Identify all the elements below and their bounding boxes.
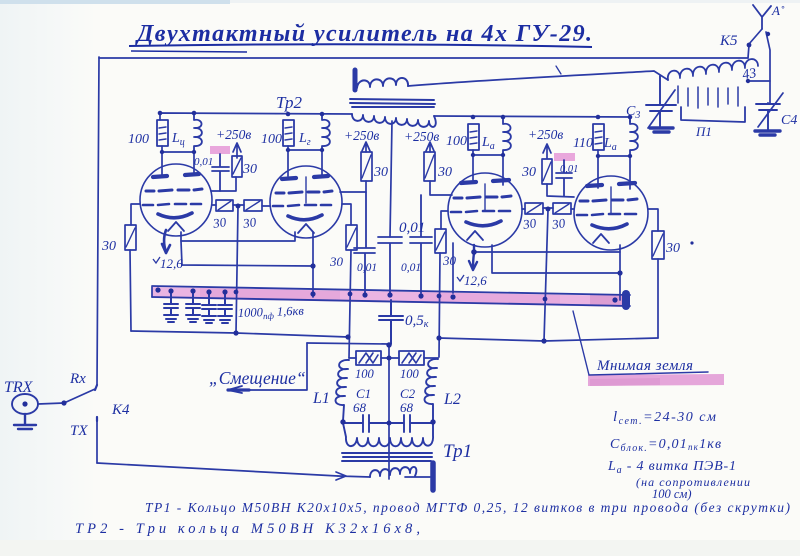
tube V2 (GU-29) envelope (270, 166, 342, 238)
svg-text:12,6: 12,6 (464, 273, 487, 288)
resistor R 100 (tube2 anode) (283, 120, 294, 146)
tube V2 control grid dashes (273, 205, 331, 206)
arrowhead bias (228, 388, 249, 391)
resistor R 110 (tube4 anode) (593, 124, 604, 150)
wire tube1 screen chain (211, 177, 236, 191)
switch K4 Rx contact (95, 385, 97, 390)
node anode rail left dots (158, 111, 163, 116)
wire XX row leads (349, 357, 438, 359)
transformer Tp2 primary winding (357, 78, 408, 88)
wire Tp1 secondary left lead with arrow (336, 472, 370, 480)
svg-text:ТX: ТX (70, 423, 88, 439)
inductor P1 tank coil (668, 59, 758, 80)
transformer Tp1 secondary winding (370, 467, 416, 477)
svg-text:30: 30 (211, 214, 227, 231)
svg-text:Мнимая земля: Мнимая земля (596, 358, 693, 374)
node bias line dots (233, 330, 238, 335)
wire V1 grid to leak resistor and down (130, 204, 140, 331)
svg-text:+250в: +250в (528, 127, 563, 142)
resistor 30 (V4 grid leak) (652, 231, 664, 259)
tube V3 screen grid dashes (454, 196, 511, 198)
tube V2 anode plates (282, 176, 328, 179)
tube V4 screen grid dashes (580, 199, 637, 201)
resistor 30 (tube1 screen stopper) (232, 156, 242, 177)
svg-text:43: 43 (741, 66, 757, 83)
resistor 30 (tube2 screen stopper, left of Tp2) (361, 152, 372, 181)
switch K4 lever (64, 389, 95, 403)
capacitor C1 68 (343, 415, 389, 432)
wire anode rail right (Tp2 secondary to tubes 3-4) (434, 116, 630, 122)
resistor 30 (grid stopper V3) (525, 203, 543, 214)
wire tube3 anode parallel bottom (473, 150, 503, 155)
wire V4 grid to leak resistor and down (648, 209, 658, 338)
svg-text:30: 30 (329, 254, 344, 269)
inductor La (tube1 anode) (194, 113, 202, 152)
node grid junction 1-2 (236, 204, 241, 209)
inductor La (tube4 anode) (630, 117, 638, 156)
svg-text:Двухтактный усилитель на: Двухтактный усилитель на 4х ГУ-29. (135, 21, 592, 47)
resistor 30 (grid stopper V2) (244, 200, 262, 211)
pen tick mark (556, 66, 561, 74)
wire TRX to switch K4 (38, 403, 64, 404)
svg-text:100 см): 100 см) (652, 487, 692, 501)
node TRX switch pivot (61, 400, 66, 405)
svg-text:L1: L1 (312, 390, 330, 407)
tube V2 beam plate line (305, 177, 307, 203)
node XX center (387, 356, 392, 361)
svg-text:0,01: 0,01 (357, 262, 377, 274)
svg-text:30: 30 (241, 214, 257, 231)
wire Tp2 center tap down (390, 121, 392, 237)
svg-text:30: 30 (442, 253, 457, 268)
tube V1 screen grid dashes (146, 189, 202, 191)
tube V3 (GU-29) envelope (448, 173, 522, 247)
svg-text:30: 30 (373, 165, 388, 180)
inductor L (tube2 anode) (322, 113, 330, 150)
wire tube3 screen chain (430, 181, 452, 195)
tube V1 anode plates (153, 174, 199, 177)
svg-text:30: 30 (550, 215, 566, 232)
resistor 30 (V2 grid leak) (346, 225, 357, 250)
svg-text:С1: С1 (356, 386, 371, 401)
svg-text:0,01: 0,01 (560, 164, 578, 175)
svg-text:С4: С4 (781, 113, 797, 128)
svg-text:30: 30 (242, 162, 257, 177)
svg-text:100: 100 (355, 367, 375, 381)
svg-text:„Смещение“: „Смещение“ (209, 368, 306, 388)
wire tube4 screen chain (547, 184, 574, 197)
wire tube3 cathode to bus (452, 243, 454, 293)
svg-text:Тр2: Тр2 (276, 93, 303, 112)
inductor P1 taps (678, 86, 738, 108)
wire heater link tubes 3-4 upper (474, 251, 620, 253)
svg-text:Lа - 4 витка ПЭВ-1: Lа - 4 витка ПЭВ-1 (607, 459, 737, 476)
tube V4 heater (593, 234, 609, 243)
capacitor 1000pf #4 (218, 293, 232, 323)
highlighter mark (tube4 bypass cap) (554, 153, 575, 161)
node grid junction 3-4 (546, 207, 551, 212)
arrow 12,6v supply (tubes 1-2) (162, 230, 170, 253)
svg-text:100: 100 (446, 134, 467, 149)
svg-text:30: 30 (437, 165, 452, 180)
wire grid junction 1-2 down to bias line (236, 207, 238, 333)
svg-text:L2: L2 (443, 391, 461, 408)
tube V3 cathode (466, 221, 501, 226)
title underline (129, 44, 592, 47)
svg-text:30: 30 (521, 215, 537, 232)
svg-text:Тр1: Тр1 (443, 441, 472, 462)
wire V3 grid to leak resistor and down to L2 node (439, 211, 448, 357)
wire left box edge (Rx side) (97, 57, 99, 385)
resistor R 100 (tube1 anode) (157, 120, 168, 146)
capacitor C4 (variable) (756, 103, 780, 130)
svg-text:100: 100 (261, 132, 282, 147)
wire V2 grid to leak resistor and down to L1 node (342, 204, 351, 358)
wire tube2 heater down to bus (312, 232, 314, 297)
wire tube2 anode leads (288, 150, 322, 176)
highlighter mark (tube1 bypass cap) (210, 146, 230, 154)
svg-text:30: 30 (521, 165, 536, 180)
wire tube1 anode parallel bottom (162, 146, 194, 152)
ground bus (virtual earth) blue edges (152, 286, 630, 306)
svg-text:30: 30 (101, 239, 116, 254)
wire P1 right end to C4 line (748, 80, 770, 82)
wire left box edge (Tx side) (96, 418, 98, 463)
svg-text:0,01: 0,01 (194, 156, 213, 168)
transformer Tp2 primary terminal bar (353, 70, 358, 90)
arrow +250v (tube3) (426, 142, 434, 152)
capacitor 0,01 (left of center) (354, 192, 375, 293)
svg-text:TRX: TRX (4, 379, 34, 396)
resistor XX 100 (bias choke left) (356, 351, 381, 365)
inductor L2 (425, 359, 439, 421)
capacitor 1000pf #3 (202, 293, 216, 323)
inductor P1 bottom bracket (681, 107, 745, 122)
tube V2 cathode (288, 215, 322, 220)
svg-text:68: 68 (400, 400, 414, 415)
tube V1 heater (168, 222, 184, 231)
wire anode rail left (tubes 1-2 to Tp2 secondary) (160, 113, 352, 120)
highlighter ground bus band (152, 287, 630, 307)
capacitor 0,01 (tube4 screen bypass) (556, 160, 572, 196)
resistor 30 (V1 grid leak) (125, 225, 136, 250)
resistor 30 (V3 grid leak) (435, 229, 446, 253)
wire tube2 anode parallel bottom (288, 146, 322, 150)
ground bus right end blob (622, 294, 630, 306)
capacitor C3 (variable) (646, 76, 676, 126)
wire grid junction 3-4 down to bias line (544, 210, 548, 341)
switch K5 lever (749, 29, 762, 44)
resistor 30 (tube3 screen stopper, right of Tp2) (424, 152, 435, 181)
svg-text:+250в: +250в (344, 128, 379, 143)
resistor XX 100 (bias choke right) (399, 351, 424, 365)
svg-text:100: 100 (128, 132, 149, 147)
wire center line bias node to Tp1 (388, 345, 390, 479)
svg-text:68: 68 (353, 400, 367, 415)
svg-text:Rx: Rx (69, 371, 86, 387)
wire top rail (99, 57, 748, 59)
svg-text:ТР1 - Кольцо М50ВН К20х10х5, п: ТР1 - Кольцо М50ВН К20х10х5, провод МГТФ… (145, 500, 790, 515)
arrow +250v (tube2) (362, 142, 370, 152)
svg-text:С2: С2 (400, 386, 416, 401)
transformer Tp2 core (350, 99, 435, 107)
stray ink dot (690, 241, 693, 244)
capacitor 0,5k (379, 300, 403, 344)
tube V4 cathode (592, 224, 627, 229)
wire tube4 anode leads (598, 156, 630, 189)
wire tube4 anode parallel bottom (598, 150, 630, 156)
switch K5 antenna symbol (753, 5, 771, 29)
tube V1 cathode (158, 213, 192, 218)
capacitor 1000pf #2 (186, 292, 200, 322)
transformer Tp1 core (342, 453, 432, 461)
terminal bar Tp1 secondary (430, 463, 436, 490)
wire heater link tubes 3-4 lower (492, 245, 620, 273)
resistor 30 (grid stopper V1) (216, 200, 233, 211)
node C1/C2 row (340, 419, 345, 424)
diagonal pointer to virtual ground (573, 311, 589, 375)
wire bus left end down (151, 287, 153, 297)
wire bias down and arrow to Smeshchenie (249, 343, 307, 390)
transformer Tp1 primary winding (343, 423, 433, 446)
capacitor 0,01 (right of center) (410, 195, 432, 293)
inductor La (tube3 anode) (503, 117, 511, 155)
node tube anode bottoms (160, 150, 164, 154)
wire antenna to C4 / tank (766, 32, 770, 103)
highlighter underline (virtual ground) (588, 374, 724, 386)
tube V3 anode plates (461, 180, 509, 183)
capacitor 0,01 (center, Tp2 tap) (378, 237, 402, 293)
connector TRX body (12, 394, 38, 414)
tube V3 heater (467, 231, 483, 240)
wire grid link tubes 1-2 (212, 205, 270, 206)
tube V2 screen grid dashes (276, 191, 332, 193)
svg-text:+250в: +250в (216, 127, 251, 142)
svg-text:12,6: 12,6 (160, 256, 183, 271)
arrow +250v (tube4) (543, 144, 551, 158)
connector TRX stem and ground (14, 414, 36, 429)
capacitor 1000pf #1 (164, 292, 178, 322)
underline virtual ground (589, 372, 708, 375)
tube V4 (GU-29) envelope (574, 176, 648, 250)
node anode rail right dots (471, 115, 476, 120)
node P1 right end (746, 79, 750, 83)
svg-text:0,01: 0,01 (401, 262, 421, 274)
wire Tp1 secondary right lead (405, 476, 430, 478)
wire bias feed corner (307, 343, 389, 344)
node K5 contacts (747, 43, 752, 48)
tube V1 control grid dashes (143, 204, 201, 205)
wire tube4 heater down to bus (619, 245, 621, 300)
wire tube2 screen chain (340, 181, 366, 192)
tube V2 heater (298, 224, 314, 233)
capacitor C2 68 (389, 415, 433, 432)
resistor R 100 (tube3 anode) (468, 124, 479, 150)
svg-text:К4: К4 (111, 402, 130, 418)
arrow +250v (tube1) (233, 143, 241, 158)
wire K5 to top rail (748, 45, 749, 58)
node bus dots (155, 287, 160, 292)
inductor L1 (336, 360, 350, 421)
wire right bias line (439, 338, 658, 341)
tube V3 control grid dashes (451, 211, 510, 212)
svg-text:К5: К5 (719, 33, 738, 49)
svg-text:0,01: 0,01 (399, 220, 425, 236)
capacitor 0,01 (tube1 screen bypass) (212, 154, 229, 191)
node heater junctions (310, 263, 315, 268)
svg-text:П1: П1 (695, 124, 712, 139)
tube V4 control grid dashes (577, 214, 636, 215)
switch K4 Tx contact (96, 417, 98, 421)
resistor 30 (tube4 screen stopper) (542, 159, 552, 184)
transformer Tp2 secondary winding (352, 114, 436, 127)
resistor 30 (grid stopper V4) (553, 203, 571, 214)
wire left bias line (131, 331, 348, 337)
tube V4 anode plates (587, 183, 635, 186)
wire heater link tubes 1-2 upper (181, 232, 295, 241)
svg-text:100: 100 (400, 367, 420, 381)
wire Tp2 to P1 coil (408, 71, 668, 86)
svg-text:110: 110 (573, 136, 593, 151)
tube V3 beam plate line (484, 184, 486, 210)
wire tube1 anode leads (162, 152, 194, 176)
tube V4 beam plate line (610, 187, 612, 213)
wire heater link tubes 1-2 lower (181, 241, 313, 266)
tube V1 (GU-29) envelope (140, 164, 212, 236)
svg-text:30: 30 (665, 241, 680, 256)
svg-text:+250в: +250в (404, 129, 439, 144)
wire bottom TX line to Tp1 (97, 463, 338, 476)
wire tube3 anode leads (473, 155, 503, 185)
arrow 12,6v supply (tubes 3-4) (469, 245, 477, 270)
wire grid link tubes 3-4 (522, 208, 574, 209)
